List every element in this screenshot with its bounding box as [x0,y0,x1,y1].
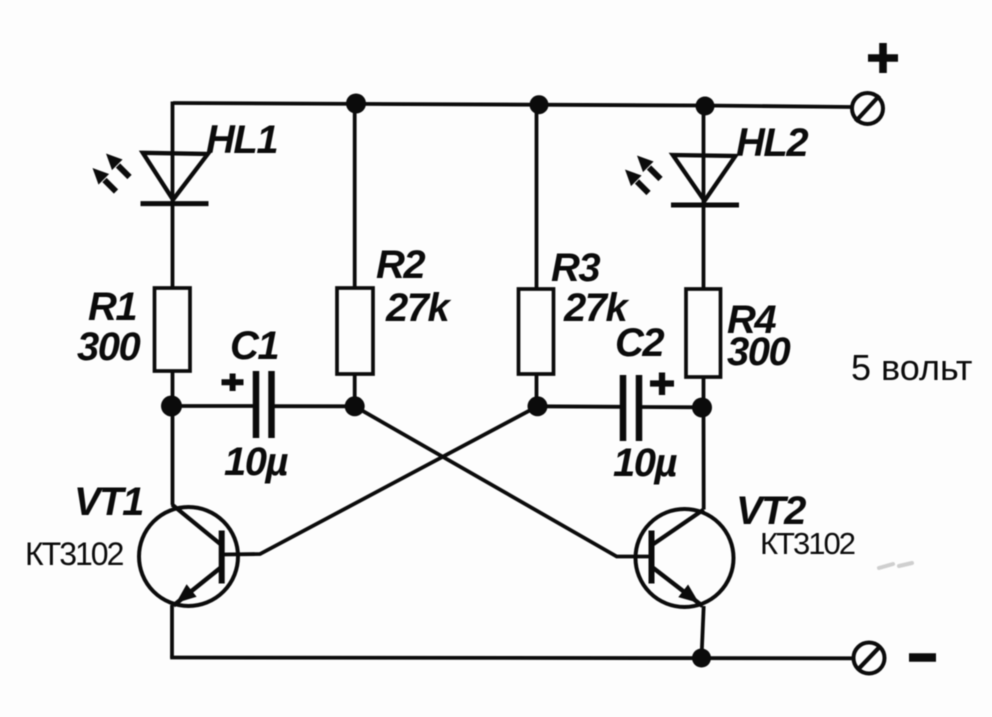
svg-text:300: 300 [727,330,790,374]
wire R3 vertical top [535,104,539,289]
svg-text:R3: R3 [551,246,600,290]
transistor VT1 [139,505,238,607]
capacitor C2 polarity plus [650,373,674,396]
wire VT2 emitter to bottom rail [702,606,704,658]
resistor R1 [155,288,191,371]
wire VT1 emitter to bottom rail [170,605,174,658]
wire C2 right plate to node D [642,405,702,409]
svg-text:C2: C2 [615,321,664,365]
wire R4 bottom to node and VT2 collector column [702,377,706,510]
svg-text:HL2: HL2 [736,121,808,165]
wire bottom rail [170,656,853,661]
LED HL1 [141,153,209,204]
wire R1 bottom to node [171,371,175,505]
node top rail R3 junction [530,95,549,114]
svg-text:HL1: HL1 [206,118,277,162]
wire cross-coupling node B to VT2 base [355,406,651,556]
terminal plus (top right) [852,93,883,124]
faint pencil smudge artifact [879,563,912,568]
LED HL2 light arrows [637,156,661,180]
node B (R2/C1) [345,396,365,416]
svg-text:R2: R2 [376,243,425,287]
wire HL1 branch vertical (collector VT1 column) [171,102,175,289]
wire R4 vertical top [702,106,706,289]
node A (R1/C1/VT1 collector) [161,396,182,417]
node top rail R4 junction [696,97,715,116]
svg-text:27k: 27k [385,286,451,330]
node D (R4/C2/VT2 collector) [692,398,712,418]
wire R3 bottom to node [535,374,539,406]
svg-text:300: 300 [77,325,140,369]
svg-text:10µ: 10µ [613,441,677,485]
svg-text:КТ3102: КТ3102 [25,536,124,572]
wire R2 vertical top [353,103,357,288]
wire C1 right plate to node B [275,404,355,408]
svg-text:C1: C1 [230,324,278,368]
wire node A to C1 left plate [173,404,254,408]
resistor R3 [519,289,554,374]
terminal minus (bottom right) [854,643,885,674]
capacitor C1 plates [256,371,272,438]
resistor R4 [686,289,721,377]
LED HL2 [671,155,739,205]
wire top rail [173,103,852,107]
resistor R2 [337,288,373,374]
svg-text:5 вольт: 5 вольт [851,347,972,388]
node top rail R2 junction [346,94,366,114]
node bottom rail VT2 emitter [692,649,711,668]
svg-text:10µ: 10µ [224,440,288,484]
wire cross-coupling node C to VT1 base [223,406,538,554]
node C (R3/C2) [528,396,548,416]
svg-text:VT1: VT1 [74,480,143,524]
capacitor C1 polarity plus [222,374,244,392]
wire R2 bottom to node [353,374,357,406]
capacitor C2 plates [623,375,639,441]
transistor VT2 [636,509,734,607]
plus symbol [868,43,898,73]
minus symbol [909,653,936,662]
svg-text:R1: R1 [88,285,136,329]
wire node C to C2 left plate [538,404,621,408]
svg-text:КТ3102: КТ3102 [760,526,855,561]
